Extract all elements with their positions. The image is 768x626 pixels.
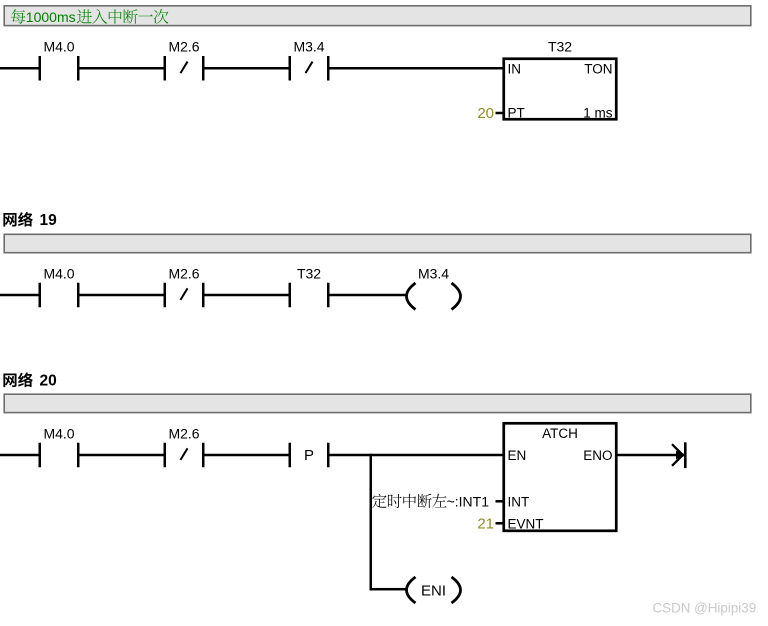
wire: P contact to ATCH EN pin, through branch node: [329, 454, 504, 457]
coil ENI (enable interrupts): [407, 577, 461, 603]
svg-text:PT: PT: [508, 106, 525, 121]
svg-text:ENI: ENI: [421, 583, 446, 600]
svg-text:~:INT1: ~:INT1: [447, 493, 490, 509]
svg-text:IN: IN: [508, 61, 522, 76]
svg-text:M2.6: M2.6: [168, 39, 199, 55]
wire: rung1 left rail to contact M4.0: [0, 67, 40, 70]
network comment banner box: [4, 6, 751, 26]
svg-text:T32: T32: [297, 265, 321, 281]
svg-text:M2.6: M2.6: [168, 265, 199, 281]
svg-text:M3.4: M3.4: [293, 39, 324, 55]
wire: M2.6 to P contact (rung 3): [204, 454, 290, 457]
network 20 title: [3, 372, 56, 389]
NC contact M3.4 (rung 1): [289, 39, 330, 81]
NC contact M2.6 (rung 2): [164, 265, 205, 307]
value 21 on EVNT pin: [477, 515, 494, 532]
NC contact M2.6 (rung 1): [164, 39, 205, 81]
svg-text:CSDN @Hipipi39: CSDN @Hipipi39: [653, 601, 757, 616]
contact M4.0 (rung 3): [39, 425, 80, 467]
interrupt-attach U2: ATCH box: [504, 423, 617, 531]
wire: rung2 left rail to M4.0: [0, 294, 40, 297]
wire: EVNT pin stub: [496, 522, 504, 525]
open rung arrow: [672, 442, 687, 468]
network 19 title bar: [4, 234, 751, 252]
contact M4.0 (rung 2): [39, 265, 80, 307]
contact M4.0 (rung 1): [39, 39, 80, 81]
svg-text:20: 20: [477, 105, 494, 122]
wire: M4.0 to M2.6: [79, 67, 165, 70]
svg-text:TON: TON: [584, 61, 612, 76]
wire: M4.0 to M2.6 (rung 3): [79, 454, 165, 457]
svg-text:19: 19: [40, 212, 58, 229]
watermark CSDN @Hipipi39: [653, 601, 757, 616]
wire: M4.0 to M2.6 (rung 2): [79, 294, 165, 297]
svg-text:M4.0: M4.0: [43, 39, 74, 55]
NC contact M2.6 (rung 3): [164, 425, 205, 467]
wire: M3.4 to timer T32 IN pin: [329, 67, 504, 70]
wire: ENO output to open arrow: [616, 454, 681, 457]
svg-text:1000ms: 1000ms: [26, 9, 76, 25]
svg-text:M4.0: M4.0: [43, 425, 74, 441]
svg-text:1 ms: 1 ms: [583, 106, 613, 121]
svg-text:M3.4: M3.4: [418, 265, 449, 281]
svg-text:ENO: ENO: [583, 448, 612, 463]
wire: rung3 left rail to M4.0: [0, 454, 40, 457]
svg-text:21: 21: [477, 515, 494, 532]
svg-text:EVNT: EVNT: [508, 516, 544, 531]
node: branch junction: [370, 454, 373, 457]
wire: PT pin stub: [496, 112, 504, 115]
svg-text:INT: INT: [508, 494, 530, 509]
svg-text:T32: T32: [548, 39, 572, 55]
wire: T32 to coil M3.4: [329, 294, 407, 297]
wire: M2.6 to T32 (rung 2): [204, 294, 290, 297]
svg-text:ATCH: ATCH: [542, 426, 578, 441]
timer U1: TON T32 box: [504, 39, 617, 121]
wire: vertical branch down to ENI: [370, 455, 373, 590]
svg-text:EN: EN: [508, 448, 527, 463]
svg-text:P: P: [304, 447, 314, 464]
svg-text:M4.0: M4.0: [43, 265, 74, 281]
value 20 on PT pin: [477, 105, 494, 122]
operand 定时中断左~:INT1 on INT pin: [372, 493, 489, 509]
svg-text:M2.6: M2.6: [168, 425, 199, 441]
wire: branch elbow to ENI coil: [370, 588, 407, 591]
network 19 title: [3, 212, 57, 229]
banner comment text: 每1000ms进入中断一次: [11, 9, 168, 25]
network 20 title bar: [4, 394, 751, 412]
positive edge contact P (rung 3): [289, 443, 330, 468]
wire: M2.6 to M3.4: [204, 67, 290, 70]
svg-text:20: 20: [40, 373, 57, 390]
output coil M3.4: [407, 265, 461, 309]
contact T32 (rung 2): [289, 265, 330, 307]
wire: INT pin stub: [496, 500, 504, 503]
